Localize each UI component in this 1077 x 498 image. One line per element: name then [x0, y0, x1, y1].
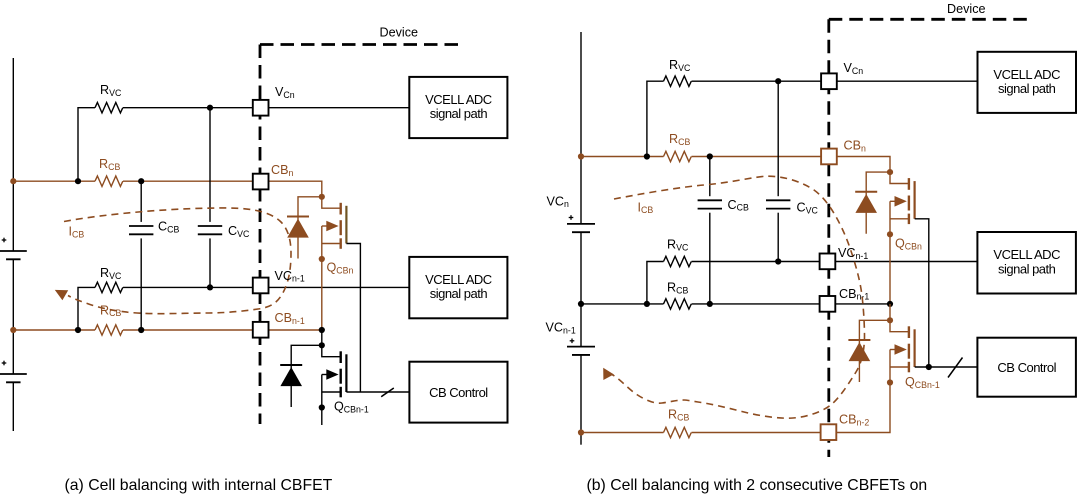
- wire CBn-2 pin to QCBn-1 source (fig b): [837, 383, 890, 433]
- node dot CVC bottom junction (fig b): [775, 258, 781, 264]
- terminal pin CBn-1 (fig b): [820, 296, 836, 312]
- box CB Control (fig a): [409, 362, 507, 423]
- svg-text:RCB: RCB: [100, 303, 121, 318]
- wire QCBn-1 source stub down (fig a): [321, 408, 323, 426]
- ICB dashed current loop (fig a): [64, 208, 291, 314]
- capacitor CVC (fig b): [777, 81, 779, 196]
- box CB Control (fig b): [977, 338, 1076, 397]
- wire VCn-1 pin to VCELL ADC box (fig b): [835, 261, 977, 263]
- svg-text:QCBn-1: QCBn-1: [334, 400, 369, 415]
- node dot CBn-1/FET junction (fig a): [319, 327, 325, 333]
- wire CBn-2 row rail to resistor (fig b): [581, 432, 664, 434]
- wire CBn-1 row rail to resistor (fig b): [581, 303, 664, 305]
- node dot rail-CBn-1 (fig b): [578, 301, 584, 307]
- wire QCBn gate drop (fig b): [915, 219, 929, 367]
- transistor QCBn with body diode (fig a): [322, 197, 341, 208]
- box VCELL ADC signal path upper (fig b): [978, 52, 1077, 113]
- svg-text:CBn: CBn: [271, 163, 294, 178]
- device boundary dashed horizontal (fig a): [260, 43, 462, 46]
- wire QCBn source to CBn-1 node (fig b): [889, 234, 891, 304]
- resistor RVC upper (fig b): [664, 76, 692, 86]
- svg-text:CBn-1: CBn-1: [275, 311, 305, 326]
- rail bottom segment (fig b): [580, 355, 582, 445]
- svg-text:ICB: ICB: [638, 200, 654, 215]
- node dot CCB top junction (fig a): [138, 178, 144, 184]
- terminal pin CBn-2 (fig b): [821, 424, 837, 440]
- svg-text:signal path: signal path: [998, 261, 1056, 276]
- resistor RCB lower black (fig b): [664, 299, 692, 309]
- terminal pin VCn (fig a): [253, 100, 269, 116]
- svg-text:VCn: VCn: [547, 194, 570, 209]
- svg-text:RCB: RCB: [668, 408, 689, 423]
- box VCELL ADC signal path lower (fig a): [409, 257, 507, 318]
- svg-text:CBn: CBn: [844, 139, 867, 154]
- svg-text:CB Control: CB Control: [997, 360, 1056, 375]
- wire CBn resistor to pin (fig a): [123, 180, 253, 182]
- wire QCBn source to CBn-1 node (fig a): [321, 259, 323, 330]
- battery cell VCn-1 (fig b): [567, 346, 595, 348]
- node dot CCB top junction (fig b): [707, 153, 713, 159]
- node dot rail-CBn-2 (fig b): [578, 429, 584, 435]
- node dot gate bus junction (fig b): [926, 364, 932, 370]
- battery plus sign (fig b VCn): [569, 217, 574, 219]
- svg-text:VCn-1: VCn-1: [838, 246, 868, 261]
- battery plus sign (fig a cell n): [2, 239, 7, 241]
- resistor RVC lower (fig a): [95, 282, 123, 292]
- svg-text:VCn-1: VCn-1: [275, 269, 305, 284]
- terminal pin CBn (fig a): [253, 174, 269, 190]
- wire CBn resistor to pin (fig b): [692, 156, 822, 158]
- svg-text:CCB: CCB: [728, 198, 749, 213]
- node dot rail-CBn-1 (fig a): [10, 327, 16, 333]
- node dot RVC/RCB lower junction (fig a): [75, 327, 81, 333]
- wire gate bus to CB Control (fig b): [915, 366, 978, 368]
- wire CBn-1 row rail to resistor (fig a): [13, 329, 95, 331]
- svg-text:QCBn-1: QCBn-1: [905, 375, 940, 390]
- ICB loop arrowhead (fig b): [603, 368, 614, 380]
- svg-text:CBn-1: CBn-1: [839, 287, 869, 302]
- wire VCn-1 pin to VCELL ADC box (fig a): [269, 286, 410, 288]
- svg-text:ICB: ICB: [69, 225, 85, 240]
- wire VCn resistor to pin (fig b): [692, 80, 822, 82]
- resistor RCB lower (fig a): [95, 325, 123, 335]
- ICB loop arrowhead (fig a): [55, 290, 68, 300]
- node dot CCB bottom junction (fig a): [138, 327, 144, 333]
- node dot CBn-1/FET junction (fig b): [887, 301, 893, 307]
- rail bottom segment (fig a): [12, 382, 14, 431]
- wire VCn row from corner to resistor (fig a): [78, 108, 95, 182]
- svg-text:RCB: RCB: [99, 157, 120, 172]
- wire CBn pin to QCBn drain (fig a): [269, 181, 322, 197]
- svg-text:signal path: signal path: [430, 286, 488, 301]
- wire CBn-1 node to QCBn-1 drain (fig a): [321, 330, 323, 345]
- capacitor CVC (fig a): [209, 108, 211, 222]
- resistor RCB upper (fig a): [95, 176, 123, 186]
- svg-text:RCB: RCB: [667, 281, 688, 296]
- rail segment between batteries (fig a): [12, 259, 14, 374]
- rail segment between batteries (fig b): [580, 232, 582, 346]
- node dot RVC/RCB junction (fig a): [75, 178, 81, 184]
- node dot rail-CBn (fig b): [578, 153, 584, 159]
- wire CBn pin to QCBn drain (fig b): [837, 157, 890, 173]
- terminal pin VCn-1 (fig b): [820, 254, 836, 270]
- svg-text:QCBn: QCBn: [327, 261, 354, 276]
- svg-text:Device: Device: [380, 25, 419, 39]
- wire CBn-1 pin to FET column (fig b): [835, 303, 890, 305]
- terminal pin VCn-1 (fig a): [253, 278, 269, 294]
- wire VCn-1 resistor to pin (fig a): [123, 286, 253, 288]
- svg-text:QCBn: QCBn: [895, 237, 922, 252]
- svg-text:RVC: RVC: [669, 58, 691, 73]
- svg-text:VCn: VCn: [275, 85, 295, 100]
- svg-text:VCELL ADC: VCELL ADC: [993, 247, 1060, 262]
- svg-text:signal path: signal path: [998, 81, 1056, 96]
- wire CBn-1 resistor to pin (fig a): [123, 329, 253, 331]
- svg-text:CB Control: CB Control: [429, 385, 488, 400]
- box VCELL ADC signal path lower (fig b): [977, 232, 1076, 294]
- svg-text:CVC: CVC: [797, 201, 819, 216]
- figure (a): left battery stack rail (top segment): [12, 58, 14, 251]
- wire VCn row resistor to pin (fig a): [123, 107, 253, 109]
- device boundary dashed horizontal (fig b): [829, 18, 1033, 21]
- wire VCn pin to VCELL ADC box (fig b): [837, 80, 978, 82]
- wire VCn row corner to resistor (fig b): [647, 81, 664, 156]
- svg-text:(b) Cell balancing with 2 cons: (b) Cell balancing with 2 consecutive CB…: [587, 477, 928, 494]
- resistor RCB upper (fig b): [664, 151, 692, 161]
- svg-text:(a) Cell balancing with intern: (a) Cell balancing with internal CBFET: [65, 477, 333, 494]
- transistor QCBn with body diode (fig b): [890, 172, 909, 183]
- svg-text:CBn-2: CBn-2: [839, 413, 869, 428]
- node dot RVC/RCB lower junction (fig b): [644, 301, 650, 307]
- bus slash mark (fig b): [948, 358, 963, 378]
- wire VCn-1 row corner to resistor (fig a): [78, 287, 95, 330]
- svg-text:VCELL ADC: VCELL ADC: [993, 67, 1060, 82]
- wire CBn row rail to resistor (fig a): [13, 180, 95, 182]
- box VCELL ADC signal path upper (fig a): [409, 77, 507, 138]
- svg-text:CVC: CVC: [228, 224, 250, 239]
- battery cell VCn (fig b): [567, 223, 595, 225]
- svg-text:VCELL ADC: VCELL ADC: [425, 92, 492, 107]
- node dot CVC top junction (fig b): [775, 78, 781, 84]
- svg-text:signal path: signal path: [430, 106, 488, 121]
- svg-text:VCELL ADC: VCELL ADC: [425, 272, 492, 287]
- wire CBn row rail to resistor (fig b): [581, 156, 664, 158]
- terminal pin CBn-1 (fig a): [253, 322, 269, 338]
- ICB dashed current loop (fig b): [612, 176, 865, 418]
- svg-text:VCn: VCn: [844, 61, 864, 76]
- bus slash mark (fig a): [381, 388, 394, 397]
- wire CBn-2 resistor to pin (fig b): [692, 432, 821, 434]
- battery cell n (fig a): [0, 250, 27, 252]
- battery plus sign (fig a cell n-1): [2, 362, 7, 364]
- node dot CVC top junction (fig a): [207, 105, 213, 111]
- wire VCn-1 row corner to resistor (fig b): [647, 262, 664, 304]
- node dot RVC/RCB junction (fig b): [644, 153, 650, 159]
- transistor QCBn-1 with body diode (fig a): [322, 345, 341, 356]
- wire VCn pin to VCELL ADC box (fig a): [269, 107, 410, 109]
- resistor RVC upper (fig a): [95, 103, 123, 113]
- svg-text:RCB: RCB: [669, 132, 690, 147]
- terminal pin CBn (fig b): [821, 149, 837, 165]
- capacitor CCB (fig b): [709, 157, 711, 197]
- terminal pin VCn (fig b): [821, 73, 837, 89]
- device boundary dashed vertical (fig b): [827, 19, 830, 457]
- svg-text:VCn-1: VCn-1: [546, 321, 576, 336]
- wire CBn-1 resistor to pin (fig b): [692, 303, 821, 305]
- capacitor CCB (fig a): [140, 181, 142, 222]
- battery cell n-1 (fig a): [0, 373, 27, 375]
- resistor RVC lower (fig b): [664, 256, 692, 266]
- svg-text:CCB: CCB: [158, 220, 179, 235]
- battery plus sign (fig b VCn-1): [570, 340, 575, 342]
- svg-text:Device: Device: [947, 2, 986, 16]
- node dot CCB bottom junction (fig b): [707, 301, 713, 307]
- figure (b): battery stack rail top segment: [580, 32, 582, 224]
- device boundary dashed vertical (fig a): [259, 45, 262, 425]
- wire gate bus to CB Control (fig a): [346, 391, 409, 393]
- wire QCBn gate drop (fig a): [346, 244, 360, 393]
- svg-text:RVC: RVC: [100, 83, 122, 98]
- transistor QCBn-1 with body diode (fig b): [890, 320, 909, 331]
- wire CBn-1 pin to FET column (fig a): [269, 329, 322, 331]
- svg-text:RVC: RVC: [667, 238, 689, 253]
- resistor RCB bottom (fig b): [664, 427, 692, 437]
- wire CBn-1 node to QCBn-1 drain (fig b): [889, 304, 891, 320]
- svg-text:RVC: RVC: [100, 266, 122, 281]
- wire VCn-1 resistor to pin (fig b): [692, 261, 821, 263]
- node dot CVC bottom junction (fig a): [207, 284, 213, 290]
- node dot rail-CBn (fig a): [10, 178, 16, 184]
